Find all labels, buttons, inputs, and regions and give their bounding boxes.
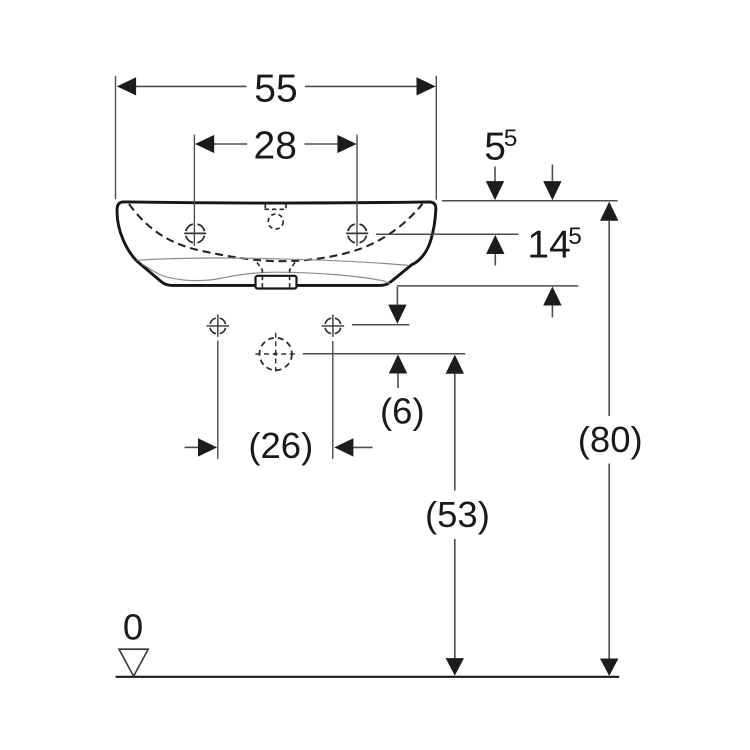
dim 28: line xyxy=(214,143,338,145)
svg-text:0: 0 xyxy=(123,607,143,648)
ref line siphon level xyxy=(303,353,466,355)
dim 53: lower line segment xyxy=(454,539,456,659)
dim 80: upper line segment xyxy=(608,221,610,416)
dim 55: left extension line xyxy=(115,76,117,200)
dim 80: top arrowhead xyxy=(600,202,618,221)
svg-text:(26): (26) xyxy=(248,425,313,466)
dim 5.5: lower arrowhead xyxy=(486,235,504,254)
fixing hole left: dashed circle xyxy=(210,318,226,334)
tap hole left: dashed circle xyxy=(186,224,205,243)
dim 28: right extension line xyxy=(356,135,358,246)
svg-text:(80): (80) xyxy=(578,419,643,460)
svg-text:(6): (6) xyxy=(380,390,425,431)
basin front apron upper thin line xyxy=(137,258,410,266)
fixing hole right: dashed circle xyxy=(325,318,341,334)
dim 26: left extension line xyxy=(217,341,219,459)
dim 5.5: upper arrowhead xyxy=(486,181,504,200)
dim 26: right extension line xyxy=(332,341,334,459)
drain dashed outline left xyxy=(257,262,262,287)
svg-text:5: 5 xyxy=(484,125,506,168)
ref line tap hole level xyxy=(376,233,519,235)
dim 53: bottom arrowhead xyxy=(446,658,464,676)
svg-text:14: 14 xyxy=(527,224,570,267)
dim 6: lower arrowhead xyxy=(389,354,407,373)
fixing hole left: cross ticks xyxy=(207,315,230,337)
svg-text:28: 28 xyxy=(254,124,297,167)
dim 14.5: upper arrow tail xyxy=(551,165,553,182)
dim 28: left arrowhead xyxy=(195,135,214,153)
datum triangle xyxy=(119,649,148,676)
svg-text:(53): (53) xyxy=(425,494,490,535)
dim 14.5: lower arrowhead xyxy=(543,286,561,305)
tap hole right: cross ticks xyxy=(346,232,368,234)
dim 26: left arrow tail xyxy=(185,446,199,448)
dim 26: left arrowhead xyxy=(198,438,217,456)
ref line basin bottom level xyxy=(397,285,579,287)
dim 80: bottom arrowhead xyxy=(600,659,618,677)
drain trap box xyxy=(256,276,297,289)
basin inner rim dashed curve xyxy=(129,204,423,261)
dim 28: left extension line xyxy=(193,135,195,246)
ref line top edge level xyxy=(442,200,618,202)
dim 53: upper arrowhead xyxy=(446,355,464,374)
dim 55: line xyxy=(135,85,417,87)
dim 28: right arrowhead xyxy=(337,135,356,153)
dim 6: upper arrowhead xyxy=(388,305,406,324)
basin underside thin line xyxy=(142,264,391,284)
dim 5.5: lower arrow tail xyxy=(494,254,496,266)
washbasin outer outline xyxy=(117,202,436,286)
ref line fixing hole level xyxy=(352,324,409,326)
svg-text:5: 5 xyxy=(568,223,582,250)
dim 26: right arrow tail xyxy=(353,446,372,448)
dim 6: upper arrow tail xyxy=(396,287,398,305)
dim 14.5: lower arrow tail xyxy=(551,306,553,318)
dim 55: right arrowhead xyxy=(417,77,436,95)
overflow dashed slot xyxy=(265,204,288,210)
dim 5.5: upper arrow tail xyxy=(494,167,496,183)
siphon hole: center dot xyxy=(274,352,277,355)
siphon hole: dashed cross xyxy=(255,333,296,372)
dim 53: upper line segment xyxy=(454,374,456,491)
svg-text:5: 5 xyxy=(504,125,518,152)
drain dashed outline right xyxy=(290,262,295,287)
siphon hole: dashed circle xyxy=(260,338,292,370)
dim 55: right extension line xyxy=(435,76,437,200)
tap hole left: cross ticks xyxy=(184,232,206,234)
tap hole right: dashed circle xyxy=(348,224,367,243)
dim 26: right arrowhead xyxy=(334,438,353,456)
overflow dashed circle xyxy=(268,214,283,229)
dim 55: left arrowhead xyxy=(117,77,136,95)
svg-text:55: 55 xyxy=(254,67,297,110)
dim 6: lower arrow tail xyxy=(397,374,399,389)
dim 14.5: upper arrowhead xyxy=(543,181,561,200)
dim 80: lower line segment xyxy=(608,464,610,660)
fixing hole right: cross ticks xyxy=(322,315,345,337)
floor line xyxy=(116,676,620,678)
